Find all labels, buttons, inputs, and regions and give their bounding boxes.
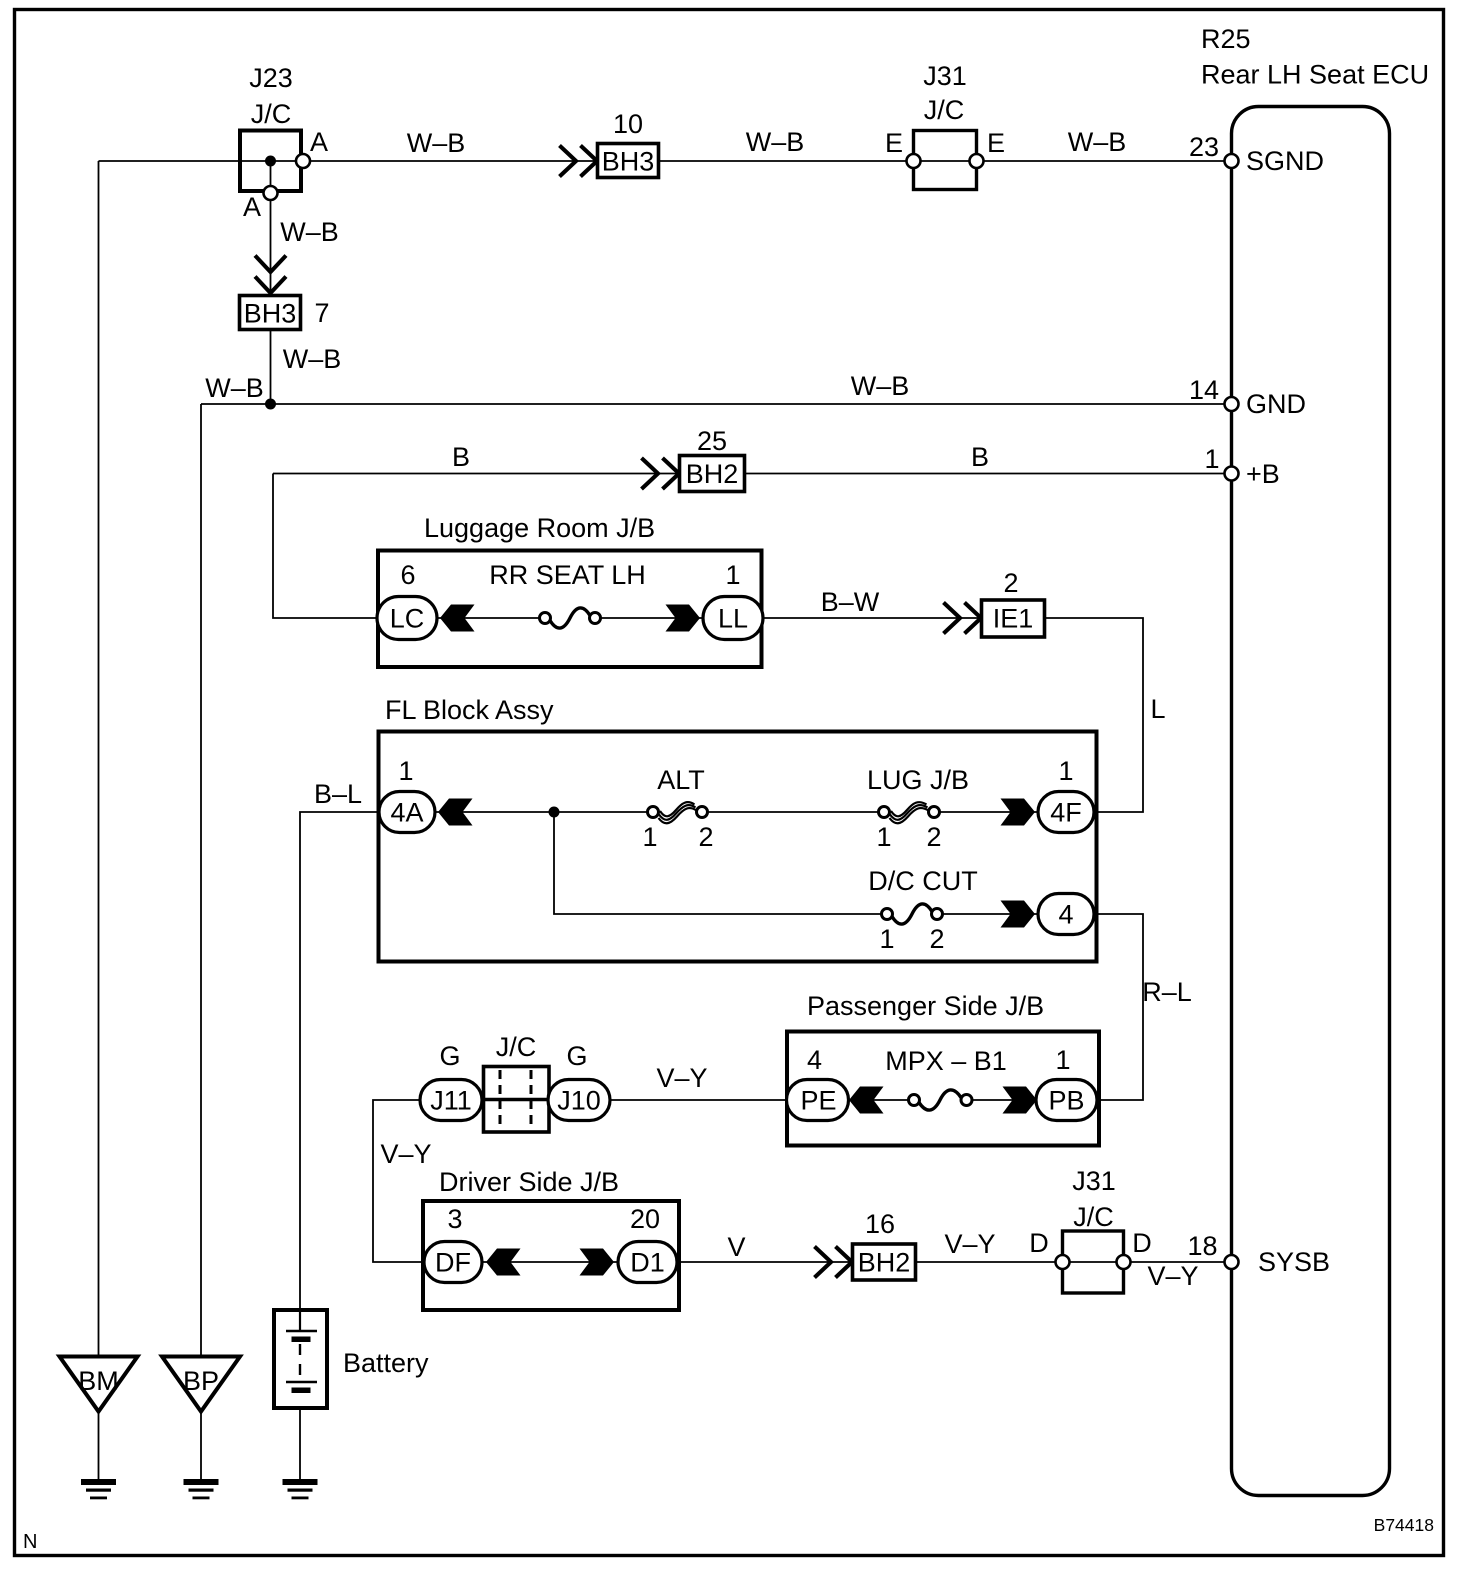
pin 14 GND terminal xyxy=(1225,397,1239,411)
Passenger Side J/B box xyxy=(787,1032,1099,1146)
svg-text:RR SEAT LH: RR SEAT LH xyxy=(489,560,646,590)
svg-text:18: 18 xyxy=(1187,1231,1217,1261)
fusible link LUG J/B xyxy=(867,765,969,852)
svg-text:V–Y: V–Y xyxy=(380,1139,431,1169)
svg-text:V: V xyxy=(727,1232,745,1262)
svg-text:FL Block Assy: FL Block Assy xyxy=(385,695,554,725)
svg-text:BH2: BH2 xyxy=(858,1248,911,1278)
svg-text:W–B: W–B xyxy=(280,217,339,247)
wire DF to D1 xyxy=(482,1261,618,1263)
svg-text:3: 3 xyxy=(447,1204,462,1234)
chevron arrows into IE1 xyxy=(944,603,982,634)
wire PE to MPX fuse xyxy=(848,1099,910,1101)
svg-text:IE1: IE1 xyxy=(993,604,1034,634)
wire V-Y J11 down to DF xyxy=(373,1100,427,1262)
chevron arrows into BH3 top xyxy=(560,146,598,177)
svg-text:BH3: BH3 xyxy=(602,147,655,177)
svg-text:1: 1 xyxy=(1204,444,1219,474)
svg-text:E: E xyxy=(987,128,1005,158)
svg-text:R–L: R–L xyxy=(1142,977,1192,1007)
terminal A right of J23 xyxy=(296,154,310,168)
junction dot GND xyxy=(265,399,276,410)
svg-text:W–B: W–B xyxy=(746,127,805,157)
svg-text:1: 1 xyxy=(642,822,657,852)
svg-text:BP: BP xyxy=(183,1366,219,1396)
wire B-L from FL block to battery xyxy=(300,812,381,1310)
connector LC pin 6 xyxy=(377,560,437,640)
svg-text:B–W: B–W xyxy=(821,587,880,617)
svg-text:J/C: J/C xyxy=(251,99,292,129)
svg-text:A: A xyxy=(243,192,261,222)
arrow left at DF xyxy=(486,1249,521,1276)
svg-text:4F: 4F xyxy=(1050,798,1082,828)
svg-text:4: 4 xyxy=(807,1045,822,1075)
connector PB pin 1 xyxy=(1036,1045,1097,1121)
svg-text:J/C: J/C xyxy=(496,1032,537,1062)
terminal D left of J31 xyxy=(1056,1255,1070,1269)
wire J23 down to BH3 xyxy=(270,161,272,295)
wire B drop to luggage row xyxy=(273,474,378,619)
wire MPX fuse to PB xyxy=(966,1099,1037,1101)
junction dot FL block xyxy=(549,807,560,818)
svg-text:J/C: J/C xyxy=(924,95,965,125)
connector IE1 pin 2 xyxy=(982,568,1045,637)
wire D/C CUT fuse to 4 xyxy=(939,913,1038,915)
svg-text:ALT: ALT xyxy=(657,765,705,795)
svg-text:V–Y: V–Y xyxy=(1147,1261,1198,1291)
svg-text:Passenger Side J/B: Passenger Side J/B xyxy=(807,991,1044,1021)
svg-text:SGND: SGND xyxy=(1246,146,1324,176)
terminal E right of J31 xyxy=(970,154,984,168)
ECU label R25 xyxy=(1201,24,1429,90)
wire SGND W-B horizontal xyxy=(99,160,1232,162)
connector J10 xyxy=(548,1080,610,1121)
svg-text:2: 2 xyxy=(926,822,941,852)
svg-text:GND: GND xyxy=(1246,389,1306,419)
wire FL row ALT to LUG fuse xyxy=(706,811,880,813)
Driver Side J/B box xyxy=(423,1201,679,1310)
arrow left at LC xyxy=(440,605,475,632)
svg-text:LC: LC xyxy=(390,604,425,634)
Luggage Room J/B box xyxy=(378,551,762,668)
svg-text:14: 14 xyxy=(1189,375,1219,405)
svg-text:25: 25 xyxy=(697,426,727,456)
svg-text:W–B: W–B xyxy=(1068,127,1127,157)
wire +B horizontal xyxy=(273,473,1232,475)
terminal A bottom of J23 xyxy=(264,186,278,200)
chevron arrows into BH2 bottom xyxy=(815,1247,853,1278)
svg-text:Battery: Battery xyxy=(343,1348,429,1378)
connector BH2 pin 25 xyxy=(680,426,745,492)
arrow right at 4 xyxy=(1001,901,1036,928)
svg-text:J23: J23 xyxy=(249,63,293,93)
svg-text:1: 1 xyxy=(398,756,413,786)
svg-text:D/C CUT: D/C CUT xyxy=(868,866,978,896)
connector 4F pin 1 xyxy=(1038,756,1094,833)
svg-text:DF: DF xyxy=(435,1248,471,1278)
svg-text:BH2: BH2 xyxy=(686,459,739,489)
wire V from D1 to BH2 xyxy=(677,1261,853,1263)
svg-text:1: 1 xyxy=(1055,1045,1070,1075)
chevron arrows down into BH3 xyxy=(255,256,286,294)
pin 23 SGND terminal xyxy=(1225,154,1239,168)
svg-text:BH3: BH3 xyxy=(244,299,297,329)
wire luggage row LC to fuse xyxy=(437,617,541,619)
svg-text:W–B: W–B xyxy=(205,373,264,403)
svg-text:D1: D1 xyxy=(630,1248,665,1278)
ground symbol battery xyxy=(283,1479,318,1499)
junction connector J31 J/C top xyxy=(914,61,977,190)
ground symbol BM xyxy=(81,1479,116,1499)
svg-text:D: D xyxy=(1029,1228,1049,1258)
wire left drop to BM xyxy=(98,161,100,1357)
connector D1 pin 20 xyxy=(618,1204,677,1283)
svg-text:L: L xyxy=(1150,694,1165,724)
svg-text:LL: LL xyxy=(718,604,748,634)
arrow right at D1 xyxy=(580,1249,615,1276)
wire V-Y BH2 to J31 to SYSB pin xyxy=(915,1261,1232,1263)
ground symbol BP xyxy=(184,1479,219,1499)
svg-text:N: N xyxy=(23,1531,37,1553)
svg-text:16: 16 xyxy=(865,1209,895,1239)
connector DF pin 3 xyxy=(424,1204,482,1283)
chevron arrows into BH2 top xyxy=(642,458,680,489)
svg-text:7: 7 xyxy=(314,298,329,328)
wire L from IE1 down to 4F xyxy=(1045,618,1143,812)
connector 4 xyxy=(1038,894,1094,935)
svg-text:G: G xyxy=(566,1041,587,1071)
arrow right at PB xyxy=(1003,1087,1038,1114)
svg-text:1: 1 xyxy=(879,924,894,954)
wire battery to ground xyxy=(299,1392,301,1480)
wire BH3 down to GND junction xyxy=(270,330,272,404)
svg-text:1: 1 xyxy=(1058,756,1073,786)
pin 18 SYSB terminal xyxy=(1225,1255,1239,1269)
svg-text:BM: BM xyxy=(78,1366,119,1396)
connector BH3 pin 7 xyxy=(240,296,330,330)
svg-text:W–B: W–B xyxy=(851,371,910,401)
svg-text:J/C: J/C xyxy=(1073,1202,1114,1232)
arrow left at 4A xyxy=(438,799,473,826)
svg-text:W–B: W–B xyxy=(407,128,466,158)
svg-text:J10: J10 xyxy=(557,1086,601,1116)
svg-text:1: 1 xyxy=(876,822,891,852)
wire GND W-B horizontal xyxy=(201,403,1232,405)
arrow right at 4F xyxy=(1001,799,1036,826)
svg-text:B74418: B74418 xyxy=(1374,1515,1434,1535)
svg-text:SYSB: SYSB xyxy=(1258,1247,1330,1277)
battery xyxy=(274,1310,327,1408)
svg-text:B–L: B–L xyxy=(314,779,362,809)
svg-text:+B: +B xyxy=(1246,459,1280,489)
wire left drop to BP xyxy=(200,404,202,1357)
svg-text:PB: PB xyxy=(1048,1086,1084,1116)
connector LL pin 1 xyxy=(703,560,763,640)
svg-text:MPX – B1: MPX – B1 xyxy=(885,1046,1007,1076)
fuse D/C CUT xyxy=(868,866,978,954)
svg-text:B: B xyxy=(971,442,989,472)
connector BH3 pin 10 xyxy=(598,109,659,178)
svg-text:J31: J31 xyxy=(1072,1166,1116,1196)
svg-text:Driver Side J/B: Driver Side J/B xyxy=(439,1167,619,1197)
wire BM triangle to ground xyxy=(98,1411,100,1480)
junction dot at J23 xyxy=(265,156,276,167)
svg-text:4: 4 xyxy=(1058,900,1073,930)
connector J11 xyxy=(420,1080,482,1121)
wire R-L from 4 down to PB xyxy=(1093,914,1143,1100)
svg-text:LUG J/B: LUG J/B xyxy=(867,765,969,795)
svg-text:4A: 4A xyxy=(390,798,423,828)
ground triangle BP xyxy=(162,1357,240,1412)
svg-text:10: 10 xyxy=(613,109,643,139)
svg-text:PE: PE xyxy=(800,1086,836,1116)
svg-text:2: 2 xyxy=(698,822,713,852)
junction connector J23 J/C xyxy=(240,63,301,191)
svg-text:2: 2 xyxy=(1003,568,1018,598)
connector PE pin 4 xyxy=(787,1045,849,1121)
svg-text:B: B xyxy=(452,442,470,472)
arrow left at PE xyxy=(849,1087,884,1114)
junction connector J/C dashed xyxy=(484,1032,550,1132)
svg-text:D: D xyxy=(1132,1228,1152,1258)
junction connector J31 J/C bottom xyxy=(1063,1166,1124,1293)
svg-text:G: G xyxy=(439,1041,460,1071)
svg-text:J31: J31 xyxy=(923,61,967,91)
pin 1 +B terminal xyxy=(1225,467,1239,481)
wire B-W LL to IE1 xyxy=(763,617,981,619)
wire FL row 4A to ALT xyxy=(435,811,649,813)
svg-text:Luggage Room J/B: Luggage Room J/B xyxy=(424,513,655,543)
svg-text:6: 6 xyxy=(400,560,415,590)
fusible link ALT xyxy=(642,765,713,852)
ECU R25 body xyxy=(1232,107,1390,1496)
svg-text:W–B: W–B xyxy=(283,344,342,374)
connector 4A pin 1 xyxy=(379,756,435,833)
svg-text:20: 20 xyxy=(630,1204,660,1234)
wire BP triangle to ground xyxy=(200,1411,202,1480)
svg-text:J11: J11 xyxy=(430,1086,472,1116)
terminal E left of J31 xyxy=(907,154,921,168)
fuse MPX-B1 xyxy=(885,1046,1007,1110)
wire V-Y J10 to PE xyxy=(609,1099,788,1101)
svg-text:R25: R25 xyxy=(1201,24,1251,54)
svg-text:Rear LH Seat ECU: Rear LH Seat ECU xyxy=(1201,60,1429,90)
svg-text:2: 2 xyxy=(929,924,944,954)
wire FL row LUG fuse to 4F xyxy=(938,811,1038,813)
wire FL junction drop to D/C CUT row xyxy=(554,812,883,914)
svg-text:V–Y: V–Y xyxy=(656,1063,707,1093)
ground triangle BM xyxy=(60,1357,138,1412)
svg-text:A: A xyxy=(310,127,328,157)
svg-text:23: 23 xyxy=(1189,132,1219,162)
wire luggage row fuse to LL xyxy=(599,617,703,619)
svg-text:V–Y: V–Y xyxy=(944,1229,995,1259)
svg-text:E: E xyxy=(885,128,903,158)
FL Block Assy box xyxy=(379,732,1097,962)
connector BH2 pin 16 xyxy=(853,1209,916,1280)
terminal D right of J31 xyxy=(1117,1255,1131,1269)
svg-text:1: 1 xyxy=(725,560,740,590)
fuse RR SEAT LH xyxy=(489,560,646,628)
arrow right at LL xyxy=(666,605,701,632)
